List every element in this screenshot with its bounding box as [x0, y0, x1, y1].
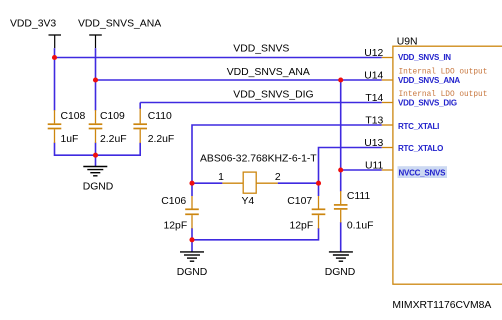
svg-text:U11: U11 [365, 160, 384, 171]
pin U12 stub [364, 48, 451, 62]
pin U13 stub [364, 138, 443, 153]
capacitor C106 [161, 196, 199, 231]
svg-text:VDD_SNVS_ANA: VDD_SNVS_ANA [398, 76, 460, 85]
pin U11 stub / node NVCC_SNVS [365, 160, 447, 178]
svg-text:2.2uF: 2.2uF [100, 134, 127, 145]
junction (54.5,57.5) [52, 55, 57, 60]
svg-text:1: 1 [218, 172, 224, 183]
svg-text:Y4: Y4 [242, 196, 255, 207]
crystal Y4 [200, 154, 317, 207]
svg-text:U12: U12 [364, 48, 383, 59]
wire VDD_SNVS_ANA vertical drop [95, 48, 97, 110]
svg-text:C111: C111 [347, 191, 371, 202]
svg-text:T14: T14 [365, 93, 383, 104]
svg-text:U13: U13 [364, 138, 383, 149]
svg-text:C110: C110 [148, 111, 172, 122]
junction (192,183.2) [189, 181, 194, 186]
svg-text:MIMXRT1176CVM8A: MIMXRT1176CVM8A [392, 300, 491, 311]
power symbol VDD_3V3 [10, 19, 61, 49]
junction (95.5,155.2) [93, 153, 98, 158]
junction (318.5,183.2) [316, 181, 321, 186]
svg-text:DGND: DGND [177, 267, 208, 278]
wire ground rail under crystal [192, 228, 319, 240]
ground DGND 2 [177, 252, 208, 278]
ground DGND 1 [83, 167, 114, 193]
capacitor C107 [287, 196, 325, 231]
wire NVCC_SNVS vertical (U14 junction down to U11) [340, 80, 342, 170]
svg-text:RTC_XTALO: RTC_XTALO [398, 144, 443, 153]
pin T13 stub [365, 115, 439, 131]
svg-text:VDD_SNVS_DIG: VDD_SNVS_DIG [233, 90, 313, 101]
svg-text:U14: U14 [364, 70, 383, 81]
wire C110 top connection [139, 103, 141, 110]
svg-text:12pF: 12pF [290, 220, 314, 231]
svg-text:T13: T13 [365, 115, 383, 126]
svg-text:1uF: 1uF [61, 134, 79, 145]
wire VDD_SNVS_ANA (to pin U14) [96, 79, 382, 81]
svg-text:VDD_SNVS: VDD_SNVS [233, 44, 289, 55]
wire crystal left lead net [192, 182, 222, 184]
wire RTC_XTALI (to pin T13) [192, 125, 382, 183]
svg-text:2: 2 [275, 172, 281, 183]
junction (340.7,170) [338, 167, 343, 172]
svg-text:C108: C108 [61, 111, 86, 122]
svg-text:2.2uF: 2.2uF [148, 134, 175, 145]
op-amp U9N chip body MIMXRT1176CVM8A [392, 37, 502, 311]
junction (95.5,80) [93, 77, 98, 82]
junction (192,239.8) [189, 237, 194, 242]
svg-text:12pF: 12pF [164, 220, 188, 231]
power symbol VDD_SNVS_ANA [78, 19, 161, 49]
svg-text:VDD_SNVS_DIG: VDD_SNVS_DIG [398, 99, 457, 108]
wire DGND stub 2 [191, 240, 193, 252]
wire crystal right lead net [278, 182, 319, 184]
svg-text:C107: C107 [287, 196, 312, 207]
capacitor C108 [48, 110, 86, 145]
svg-text:DGND: DGND [83, 181, 114, 192]
wire C109 bottom lead to rail [95, 143, 97, 156]
wire RTC_XTALO (to pin U13) [319, 148, 382, 184]
svg-text:ABS06-32.768KHZ-6-1-T: ABS06-32.768KHZ-6-1-T [200, 154, 317, 165]
capacitor C111 [334, 191, 374, 232]
wire C107 top [318, 183, 320, 196]
svg-text:0.1uF: 0.1uF [347, 220, 374, 231]
wire VDD_SNVS (to pin U12) [55, 57, 382, 59]
wire ground rail under C108 C109 C110 [55, 143, 141, 156]
svg-text:RTC_XTALI: RTC_XTALI [398, 122, 439, 131]
capacitor C109 [89, 110, 127, 145]
capacitor C110 [133, 109, 174, 145]
pin U14 stub [364, 68, 487, 85]
svg-text:VDD_SNVS_IN: VDD_SNVS_IN [398, 53, 451, 62]
svg-text:VDD_SNVS_ANA: VDD_SNVS_ANA [227, 67, 310, 78]
wire C111 top [340, 170, 342, 192]
wire VDD_SNVS_DIG (to pin T14) [140, 102, 382, 104]
wire VDD_3V3 vertical drop [54, 48, 56, 110]
svg-text:U9N: U9N [397, 37, 418, 48]
wire DGND stub 1 [95, 155, 97, 166]
wire C106 top [191, 183, 193, 196]
svg-text:NVCC_SNVS: NVCC_SNVS [399, 169, 447, 178]
wire NVCC_SNVS (to pin U11) [341, 169, 382, 171]
ground DGND 3 [325, 252, 356, 278]
svg-text:VDD_SNVS_ANA: VDD_SNVS_ANA [78, 19, 161, 30]
svg-text:VDD_3V3: VDD_3V3 [10, 19, 56, 30]
svg-text:DGND: DGND [325, 267, 356, 278]
svg-text:C106: C106 [161, 196, 186, 207]
junction (340.7,80) [338, 77, 343, 82]
svg-text:C109: C109 [100, 111, 125, 122]
wire C111 bottom / DGND stub 3 [340, 222, 342, 252]
svg-text:Internal LDO output: Internal LDO output [399, 91, 488, 99]
pin T14 stub [365, 91, 487, 108]
